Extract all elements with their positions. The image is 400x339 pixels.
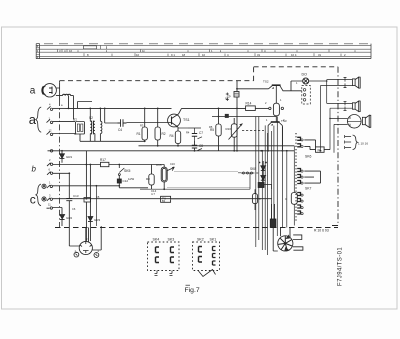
diodes GR6 GR7 <box>261 161 266 183</box>
feeder verticals to speakers <box>321 80 335 153</box>
dial pointer box <box>84 46 97 49</box>
dashed net from tube top <box>60 67 338 81</box>
tube V1 <box>42 84 56 97</box>
tweeter round <box>330 115 371 129</box>
rectifier block <box>258 183 271 190</box>
resistor R8 <box>146 165 157 197</box>
dial ticks band2 <box>58 50 356 52</box>
dotted board edge <box>295 133 297 222</box>
resistor R15 vertical <box>273 103 283 122</box>
DIN connector SK <box>69 226 101 257</box>
transformer T1 box <box>73 118 85 142</box>
dashed right edge <box>330 67 338 226</box>
dial dashed top line <box>44 43 368 45</box>
contact b2 <box>47 172 53 175</box>
cap C7 <box>178 128 203 141</box>
left long verticals to DIN <box>95 186 97 226</box>
bus y141.3 <box>80 140 145 142</box>
wires mid <box>163 165 165 168</box>
transistor TS3 flat <box>268 119 287 151</box>
contact on bus <box>50 150 53 153</box>
bus y150.8 <box>48 150 295 152</box>
dashed box SK2 SK1 <box>193 238 220 277</box>
vertical taps <box>78 102 93 109</box>
faint continuation wires <box>171 198 230 200</box>
pot R16 with arrow <box>226 118 243 151</box>
contact b1 <box>47 163 53 166</box>
contact c3 <box>47 207 53 209</box>
switch SK5 <box>117 165 130 188</box>
resistor R5 (collector load) <box>210 108 221 151</box>
dial ticks band3 <box>84 53 341 56</box>
jack sockets c1 <box>42 184 119 188</box>
rail B <box>212 116 276 118</box>
diode GR1 <box>60 150 73 163</box>
speaker 1 <box>321 77 361 88</box>
transistor TS1 <box>165 108 190 131</box>
fuse/resistor vertical right <box>285 193 297 205</box>
pot R14 <box>246 102 272 111</box>
switch SK9 box <box>224 81 239 151</box>
switch contact a2 <box>47 119 53 123</box>
dashed mech link to SK8 <box>241 172 259 174</box>
base wire <box>127 122 166 124</box>
switch contact a3 <box>47 131 53 135</box>
base tap <box>105 108 118 123</box>
coil L1 <box>56 94 71 95</box>
motor M <box>273 228 303 251</box>
diode GR2 <box>60 215 73 227</box>
cap C13 in line x70 <box>66 199 72 201</box>
transformer T2 <box>89 108 95 141</box>
dashed box SK4 SK3 <box>148 238 180 276</box>
connector block x86 <box>84 151 91 241</box>
cap C8 <box>192 141 204 151</box>
extra pins lower <box>297 193 303 215</box>
resistor R4 (emitter) <box>170 131 181 146</box>
speaker 2 <box>327 101 361 112</box>
misc junction dots <box>68 108 321 200</box>
lamp DO <box>291 73 327 85</box>
jack sockets c2 <box>42 197 272 201</box>
switch link dash-dot <box>59 100 61 228</box>
junction dots <box>104 108 196 152</box>
dial right end <box>370 44 372 59</box>
board right edge <box>293 146 295 226</box>
trimmer C4 <box>118 119 127 132</box>
pins SK7 <box>297 169 320 191</box>
pins SK6 <box>297 137 330 158</box>
bottom dashed boundary <box>55 227 338 229</box>
cap C22 vertical <box>252 189 261 210</box>
dial scale lines <box>36 45 371 52</box>
resistor R2 <box>155 108 166 145</box>
junction drop x250 <box>238 173 250 189</box>
wire y199 + box TW <box>161 196 171 203</box>
tiny contact digits <box>48 81 298 253</box>
electrolytic C15 <box>156 163 174 189</box>
switch contact a1 <box>47 106 53 110</box>
diode GR3 <box>88 164 101 241</box>
resistor R17 box <box>86 158 165 167</box>
wire tube to right <box>56 82 60 100</box>
dial left end boxes <box>36 44 39 59</box>
mid vertical buses <box>256 117 287 256</box>
dial tiny figures <box>59 49 346 57</box>
battery plus marks <box>225 93 229 118</box>
cable bundle blob <box>270 204 276 228</box>
bus y145.8 board top <box>139 145 295 147</box>
dial scale assembly <box>36 44 371 59</box>
main rail A <box>66 107 246 109</box>
resistor R1 <box>137 108 148 141</box>
transistor TS2 flat <box>237 80 302 104</box>
winding T3 <box>100 108 102 141</box>
wire y164.5 <box>53 164 101 166</box>
SK5 connector strip <box>302 86 311 105</box>
aux speaker tap stubs <box>345 135 369 150</box>
brace a <box>36 107 41 132</box>
dashed pot link <box>242 130 264 132</box>
